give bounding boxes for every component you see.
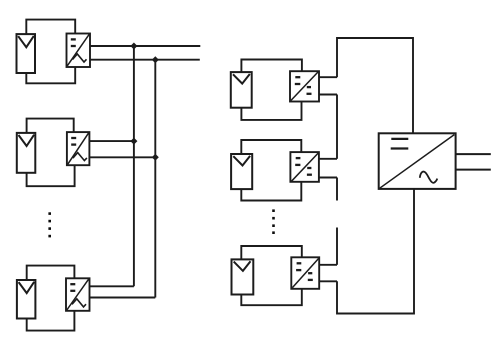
wire [241, 60, 302, 73]
wire [27, 119, 74, 133]
wire [27, 311, 75, 331]
wire [319, 76, 337, 78]
wire [26, 20, 75, 34]
wire [89, 156, 155, 158]
wire [319, 158, 337, 160]
dc-dc converter U4 [290, 71, 319, 101]
wire [241, 182, 301, 201]
node junction [152, 56, 159, 63]
wire [26, 67, 75, 83]
wire ac output [456, 169, 491, 171]
wire [241, 289, 301, 305]
central inverter U7 [379, 133, 456, 189]
wire series link broken [336, 178, 338, 201]
wire series link broken [336, 228, 338, 265]
wire series link [336, 95, 338, 159]
wire [319, 280, 337, 282]
PV module PV1 [17, 34, 36, 73]
wire [319, 94, 337, 96]
node junction [130, 43, 137, 50]
wire [241, 140, 301, 154]
dc-ac micro-inverter U1 [67, 34, 91, 68]
wire dc string bottom to inverter [337, 189, 414, 314]
wire [241, 102, 301, 120]
dc-dc converter U6 [291, 257, 319, 289]
PV module PV2 [17, 133, 36, 173]
PV module PV3 [17, 280, 36, 319]
wire dc string top to inverter [337, 38, 413, 133]
wire [90, 297, 156, 299]
PV module PV6 [232, 259, 254, 294]
wire [90, 285, 134, 287]
ellipsis continuation dots right [272, 209, 275, 234]
wire [319, 264, 337, 266]
dc-ac micro-inverter U3 [66, 278, 90, 311]
wire bus [133, 46, 135, 286]
wire [27, 165, 75, 186]
wire [27, 266, 75, 280]
wire ac output [456, 153, 491, 155]
wire [89, 140, 133, 142]
dc-dc converter U5 [290, 152, 319, 182]
wire bus [154, 60, 156, 298]
wire [241, 246, 301, 259]
ellipsis continuation dots left [48, 212, 51, 237]
PV module PV4 [231, 72, 252, 108]
dc-ac micro-inverter U2 [67, 132, 90, 165]
wire [90, 59, 200, 61]
PV module PV5 [231, 154, 252, 189]
wire [319, 177, 337, 179]
node junction [152, 154, 159, 161]
node junction [130, 138, 137, 145]
wire [90, 45, 200, 47]
